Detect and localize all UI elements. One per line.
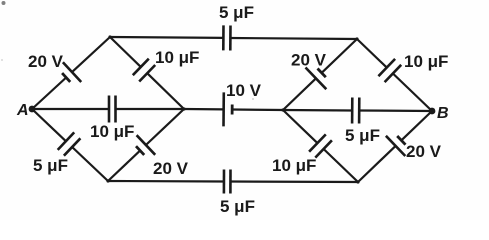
battery V3 10 V [224,92,233,126]
wire 5 μF plate to node B [359,109,432,112]
junction: mid-left node [182,107,185,110]
svg-text:20 V: 20 V [291,51,327,70]
svg-text:5 μF: 5 μF [345,126,380,145]
junction: top-right node [355,37,358,40]
svg-text:A: A [16,102,29,119]
svg-text:20 V: 20 V [406,142,442,161]
wire bottom-right junction to battery V5 [358,146,396,182]
junction: bottom-right node [356,180,359,183]
node A terminal dot [29,106,36,113]
capacitor C5 5 μF [224,170,231,194]
wire 10 μF plate to mid-left junction [147,73,184,109]
wire mid-right junction to 10 μF plate [283,110,317,143]
capacitor C1 10 μF [133,59,155,82]
capacitor C2 10 μF [109,96,116,123]
wire bottom-left junction to 5 μF plate [108,180,224,183]
wire 10 μF plate to mid-left junction [116,108,185,110]
wire battery V3 to mid-right junction [232,108,283,111]
wire 5 μF plate to bottom-left junction [72,147,108,181]
svg-text:10 μF: 10 μF [404,52,448,71]
svg-text:10 μF: 10 μF [155,48,199,67]
svg-text:10 μF: 10 μF [272,156,316,175]
wire top-right junction to 10 μF plate [357,39,387,68]
junction: mid-right node [281,108,284,111]
wire 10 μF plate to bottom-right junction [324,149,358,182]
wire mid-right junction to 5 μF plate [283,109,352,112]
battery V5 20 V [386,136,406,156]
svg-text:5 μF: 5 μF [220,197,255,216]
battery V2 20 V [136,135,155,155]
junction: bottom-left node [106,179,109,182]
svg-text:20 V: 20 V [28,52,64,71]
wire battery V4 to top-right junction [322,39,357,73]
wire 5 μF plate to bottom-right junction [230,180,358,183]
battery V4 20 V [306,68,327,90]
svg-text:10 μF: 10 μF [90,122,134,141]
capacitor C3 5 μF [58,132,81,155]
capacitor C6 10 μF [378,59,401,82]
battery V1 20 V [62,62,81,82]
wire 10 μF plate to node B [393,74,432,112]
svg-text:5 μF: 5 μF [33,156,68,175]
svg-text:20 V: 20 V [153,159,189,178]
wire battery V1 to top-left junction [72,37,110,72]
wire node A to battery V1 [32,78,66,110]
wire mid-right junction to battery V4 [283,78,316,110]
wire node A to 5 μF plate [32,109,66,141]
capacitor C7 5 μF [352,98,359,124]
svg-text:B: B [437,105,449,122]
node B terminal dot [429,108,436,115]
wire battery V2 to mid-left junction [146,109,184,145]
capacitor C8 10 μF [309,134,332,157]
svg-text:10 V: 10 V [226,81,262,100]
wire battery V5 to node B [401,111,432,140]
wire node A to 10 μF plate [32,108,109,110]
wire top-left junction to 5 μF plate [110,36,223,39]
wire mid-left junction to battery V3 [184,108,224,111]
wire 5 μF plate to top-right junction [230,38,357,39]
svg-text:5 μF: 5 μF [219,3,254,22]
wire top-left junction to 10 μF plate [110,37,141,67]
capacitor C4 5 μF [223,25,230,50]
wire bottom-left junction to battery V2 [108,151,140,181]
junction: top-left node [108,35,111,38]
